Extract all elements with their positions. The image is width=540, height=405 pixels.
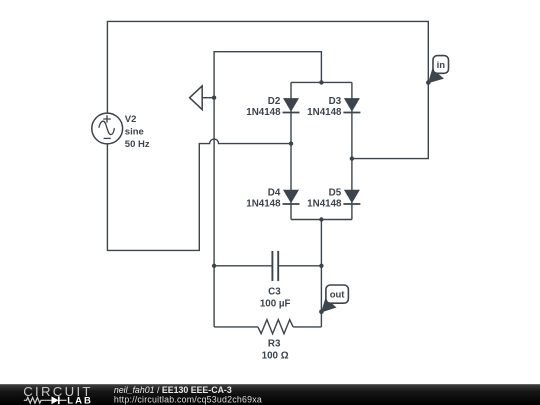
label D5 (307, 187, 342, 209)
wire V2 bottom to bridge left mid node with hop (107, 139, 291, 250)
capacitor C3 (272, 251, 278, 281)
svg-text:1N4148: 1N4148 (307, 198, 342, 209)
wire long middle vertical and upper horizontal to bridge top node (214, 52, 321, 266)
diode D5 (343, 190, 360, 204)
wire bridge bottom rail (291, 219, 352, 221)
svg-text:V2: V2 (125, 114, 137, 125)
svg-text:100 µF: 100 µF (260, 298, 291, 309)
wire capacitor row right (278, 265, 321, 267)
label V2 (125, 114, 150, 150)
wire resistor rail right of R3 (293, 326, 321, 328)
net flag in (428, 56, 449, 84)
diode D2 (283, 98, 300, 112)
node bridge top (319, 80, 323, 84)
label C3 (260, 287, 291, 310)
svg-text:in: in (437, 60, 446, 71)
net flag out (321, 285, 348, 313)
wire bridge top rail (291, 81, 352, 83)
label R3 (262, 339, 289, 362)
svg-text:http://circuitlab.com/cq53ud2c: http://circuitlab.com/cq53ud2ch69xa (114, 395, 262, 405)
svg-text:C3: C3 (268, 287, 281, 298)
svg-text:1N4148: 1N4148 (307, 107, 342, 118)
node left mid (289, 141, 293, 145)
CircuitLab logo (23, 384, 93, 405)
node junction dots (212, 80, 431, 314)
voltage source V2 (92, 113, 123, 144)
wire bridge left branch (290, 82, 292, 219)
diode D3 (343, 98, 360, 112)
svg-text:100 Ω: 100 Ω (262, 351, 289, 362)
node bridge bottom (319, 217, 323, 221)
svg-text:sine: sine (125, 127, 144, 138)
node cap left (212, 264, 216, 268)
label D4 (246, 187, 281, 209)
wire bridge bottom node down to output rail (320, 220, 322, 327)
node antenna (212, 96, 216, 100)
node in (426, 80, 431, 85)
wire bridge right branch (351, 82, 353, 219)
footer credit line (114, 385, 262, 404)
label D3 (307, 96, 342, 118)
diode D4 (283, 190, 300, 204)
svg-text:D5: D5 (329, 187, 342, 198)
resistor R3 (258, 320, 293, 334)
wire capacitor row left (214, 265, 272, 267)
svg-text:out: out (330, 289, 346, 300)
antenna flag (blank net pointer) (190, 86, 203, 110)
svg-text:D3: D3 (329, 96, 342, 107)
node cap right (319, 264, 323, 268)
svg-text:D4: D4 (268, 187, 281, 198)
node right mid (350, 156, 354, 160)
svg-text:1N4148: 1N4148 (246, 107, 281, 118)
svg-text:50 Hz: 50 Hz (125, 139, 150, 150)
wire resistor rail left of R3 (214, 326, 258, 328)
svg-text:R3: R3 (268, 339, 281, 350)
svg-text:LAB: LAB (67, 396, 93, 405)
svg-text:D2: D2 (268, 96, 281, 107)
node out (319, 310, 324, 315)
wire antenna stub (202, 97, 214, 99)
label D2 (246, 96, 281, 118)
wire V2 top to in-branch to bridge right mid node (107, 21, 428, 158)
svg-text:1N4148: 1N4148 (246, 198, 281, 209)
wire left vertical down to resistor rail (213, 266, 215, 327)
